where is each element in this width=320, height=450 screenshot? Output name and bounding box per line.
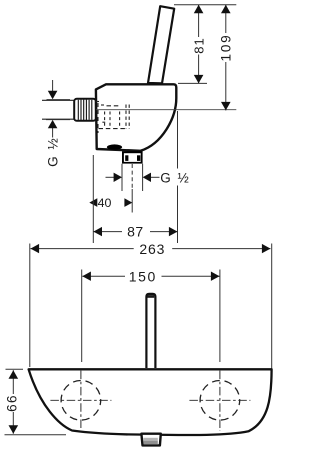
svg-text:66: 66 [4, 394, 19, 412]
svg-text:81: 81 [192, 37, 207, 53]
svg-text:109: 109 [219, 34, 234, 62]
svg-text:G ½: G ½ [46, 137, 61, 167]
svg-text:40: 40 [98, 196, 112, 210]
svg-text:150: 150 [129, 268, 157, 284]
svg-text:87: 87 [127, 223, 144, 239]
svg-text:G ½: G ½ [160, 170, 190, 185]
svg-text:263: 263 [139, 241, 165, 257]
